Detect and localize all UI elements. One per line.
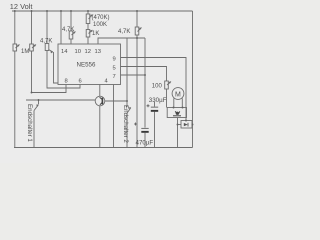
svg-text:1M: 1M [21, 49, 29, 55]
wire Q1 emitter to ground [99, 106, 101, 148]
svg-text:M: M [175, 91, 181, 98]
svg-text:9: 9 [113, 57, 116, 63]
pot P2 wiper arrow [32, 45, 36, 49]
wire transistor box to ground [177, 118, 179, 148]
capacitor C1 330uF plates [151, 107, 158, 112]
wire pin 9 output to right [121, 58, 187, 121]
wire pin 2 to transistor Q1 collector [99, 85, 101, 97]
wire pin 8 to left [32, 85, 67, 93]
wire Q1 left to switch S1 [26, 99, 95, 101]
wire pin 5 output to resistor R5 [121, 67, 167, 82]
resistor R2 arrow [72, 32, 76, 36]
svg-text:330µF: 330µF [149, 97, 167, 104]
resistor R1 4,7K body [45, 44, 49, 51]
resistor R5 100 body [165, 81, 169, 89]
svg-text:12 Volt: 12 Volt [10, 2, 33, 11]
svg-text:100K: 100K [93, 22, 107, 28]
svg-text:10: 10 [75, 49, 81, 55]
arrowheads for pot wipers [17, 15, 171, 110]
wire resistor R1 column [47, 11, 80, 88]
pot P1 wiper arrow [16, 45, 20, 49]
svg-text:NE556: NE556 [77, 62, 96, 69]
wire +12V rail [12, 10, 193, 12]
capacitor C2 plus sign [134, 123, 137, 126]
svg-text:1K: 1K [92, 31, 99, 37]
resistor R3 arrow [89, 30, 93, 34]
wire right rail down from +12V [192, 11, 194, 148]
pot P4 4,7K body [135, 27, 139, 35]
svg-text:(470K): (470K) [92, 15, 110, 21]
transistor Q1 emitter/collector strokes [100, 97, 103, 105]
transistor Q2 symbol blob [173, 111, 181, 116]
wire pot P1 column [14, 11, 16, 148]
wire wiper of R1 to IC pin [49, 50, 59, 84]
wire motor leg right [181, 98, 183, 107]
wire motor leg left [173, 98, 175, 107]
wire node A corner down to capacitor C2 [144, 38, 146, 128]
wire IC pin 14 supply [60, 11, 62, 44]
transistor Q1 body circle [95, 96, 105, 106]
svg-text:Endschalter 1: Endschalter 1 [26, 104, 33, 142]
svg-text:4,7K: 4,7K [118, 29, 130, 35]
svg-text:14: 14 [61, 49, 68, 55]
capacitor C1 plus sign [147, 104, 150, 107]
wire pin 4 to ground [113, 85, 115, 148]
wire pin 7 to node A column [121, 74, 146, 76]
transistor Q2 box [167, 108, 186, 118]
svg-text:4,7K: 4,7K [62, 27, 74, 33]
wire resistor R5 to transistor box [166, 89, 168, 108]
svg-text:5: 5 [113, 66, 116, 72]
switch S2 blade [127, 108, 131, 114]
diode D1 symbol [184, 123, 188, 126]
wire switch S1 lower [33, 111, 35, 148]
capacitor C2 470uF plates [141, 128, 148, 133]
resistor R5 arrow [167, 82, 171, 86]
paper background [0, 0, 200, 163]
wire pot P4 column [136, 11, 138, 38]
wire capacitor C1 to ground [154, 112, 156, 148]
diode D1 cathode bar [187, 123, 189, 127]
wire base node column x127 [126, 38, 128, 107]
wire pot P3 / resistor R3 column [87, 11, 89, 44]
wire node A down through x137 [136, 38, 138, 148]
wire diode stub left [178, 124, 182, 126]
wire Q1 base to node B [105, 100, 127, 102]
wire switch S2 lower [126, 113, 128, 147]
svg-text:470µF: 470µF [136, 139, 154, 146]
svg-text:Endschalter 2: Endschalter 2 [122, 105, 129, 143]
resistor R2 4,7K body [69, 31, 73, 39]
pot P2 1M body [30, 44, 34, 51]
svg-text:13: 13 [95, 49, 101, 55]
pot P3 100K body [86, 14, 90, 24]
transistor Q1 base bar [101, 98, 103, 105]
ic U1 NE556 outline [58, 44, 121, 85]
resistor R3 1K body [86, 30, 90, 38]
switch S1 blade [34, 105, 38, 111]
svg-text:12: 12 [85, 49, 91, 55]
wire ground rail [14, 147, 193, 149]
wire resistor R2 column [70, 11, 72, 44]
motor M1 circle [172, 88, 184, 100]
diode D1 box [181, 121, 192, 129]
wire capacitor C2 to ground [144, 133, 146, 148]
pot P3 wiper arrow [89, 15, 93, 20]
wire pot P2 column [31, 11, 33, 93]
svg-text:4,7K: 4,7K [40, 39, 52, 45]
pot P4 wiper arrow [138, 28, 142, 32]
pot P1 1M body [13, 44, 17, 51]
svg-text:7: 7 [113, 74, 116, 80]
wire capacitor C1 stub above [154, 102, 156, 107]
wire pin 13 to node A [98, 38, 145, 44]
svg-text:6: 6 [79, 79, 82, 85]
wire switch S1 upper stub [38, 100, 40, 104]
svg-text:100: 100 [152, 84, 163, 90]
svg-text:8: 8 [65, 79, 68, 85]
